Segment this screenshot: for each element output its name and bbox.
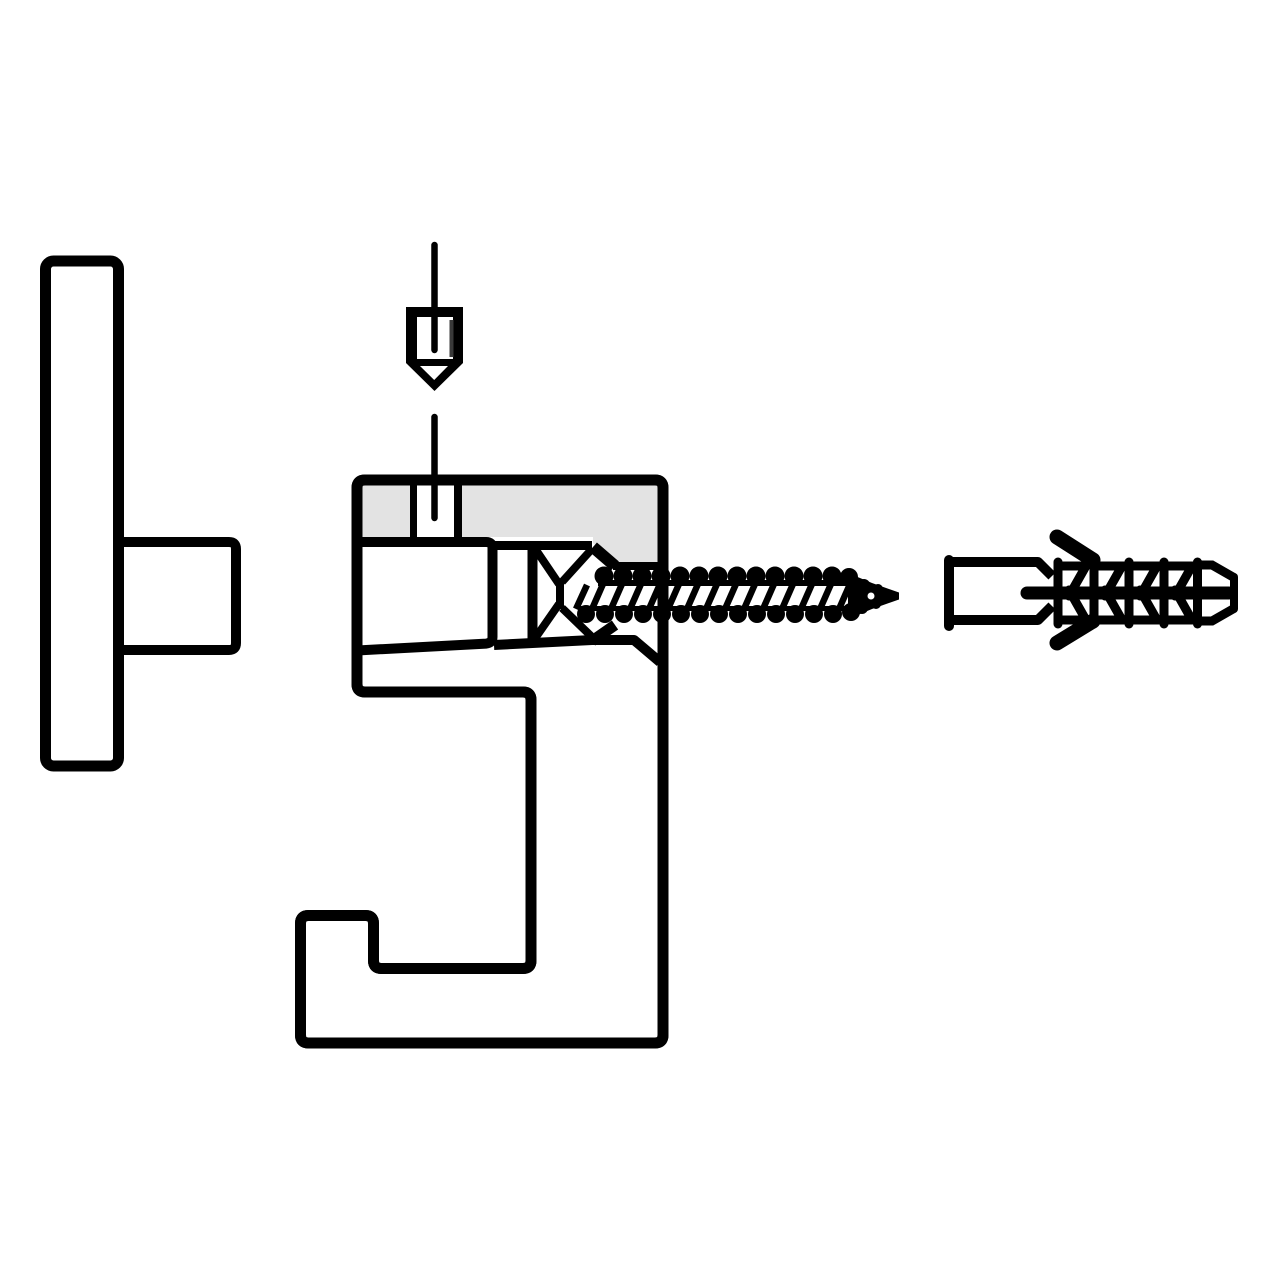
screw thread helix bars bbox=[576, 584, 850, 609]
mounting block bbox=[357, 542, 493, 651]
screw head left face bbox=[528, 545, 538, 641]
screw neck top diagonal bbox=[593, 547, 615, 566]
screw tip white dot bbox=[868, 593, 875, 600]
countersink bowtie center vertical bbox=[556, 581, 564, 609]
set screw slot white channel bbox=[410, 482, 458, 542]
wall plug fin 4 bbox=[1164, 562, 1192, 624]
set screw slot shadow line bbox=[450, 320, 454, 357]
screw tip bbox=[848, 573, 899, 619]
set screw slot white bbox=[417, 317, 453, 359]
center line lower bbox=[431, 417, 438, 518]
wall plug body top edge bbox=[952, 562, 1052, 576]
gray top band bbox=[357, 480, 663, 563]
screw thread top band bbox=[598, 580, 848, 586]
set screw slot left line bbox=[410, 481, 417, 545]
countersink bowtie lower-right diagonal bbox=[562, 608, 591, 636]
wall plug tip bbox=[1198, 562, 1235, 624]
wall plug body bottom edge bbox=[952, 606, 1052, 620]
wall plug top wing bbox=[1057, 537, 1093, 560]
wall plug fin 3 bbox=[1129, 562, 1157, 624]
screw head bottom edge with ledge and chamfer bbox=[494, 640, 660, 662]
countersink bowtie upper-left diagonal bbox=[536, 550, 559, 584]
hook bracket body bbox=[301, 480, 664, 1043]
wall rail bbox=[46, 261, 119, 766]
screw tip bumps bbox=[858, 579, 870, 591]
screw thread bottom band bbox=[580, 606, 852, 611]
countersink bowtie lower-left diagonal bbox=[536, 604, 559, 637]
wall plug center bar bbox=[1027, 587, 1229, 600]
center line upper bbox=[431, 245, 438, 350]
wall plug fin 1 bbox=[1058, 562, 1086, 624]
screw thread white core bbox=[572, 586, 852, 606]
rail tab bbox=[105, 542, 236, 650]
wall plug bottom wing bbox=[1057, 621, 1093, 643]
screw thread top crests bbox=[595, 567, 859, 587]
wall plug fin 2 bbox=[1094, 562, 1122, 624]
screw thread bottom crests bbox=[577, 603, 860, 623]
screw neck bottom diagonal bbox=[592, 625, 615, 641]
screw channel top ledge bbox=[613, 562, 660, 570]
wall plug collar bbox=[944, 560, 954, 626]
set screw white notch triangle bbox=[420, 366, 448, 380]
set screw body bbox=[406, 307, 463, 391]
screw head top edge bbox=[495, 541, 592, 550]
set screw slot right line bbox=[454, 481, 462, 545]
countersink bowtie upper-right diagonal bbox=[562, 550, 591, 582]
bracket outline re-stroke bbox=[301, 480, 664, 1043]
